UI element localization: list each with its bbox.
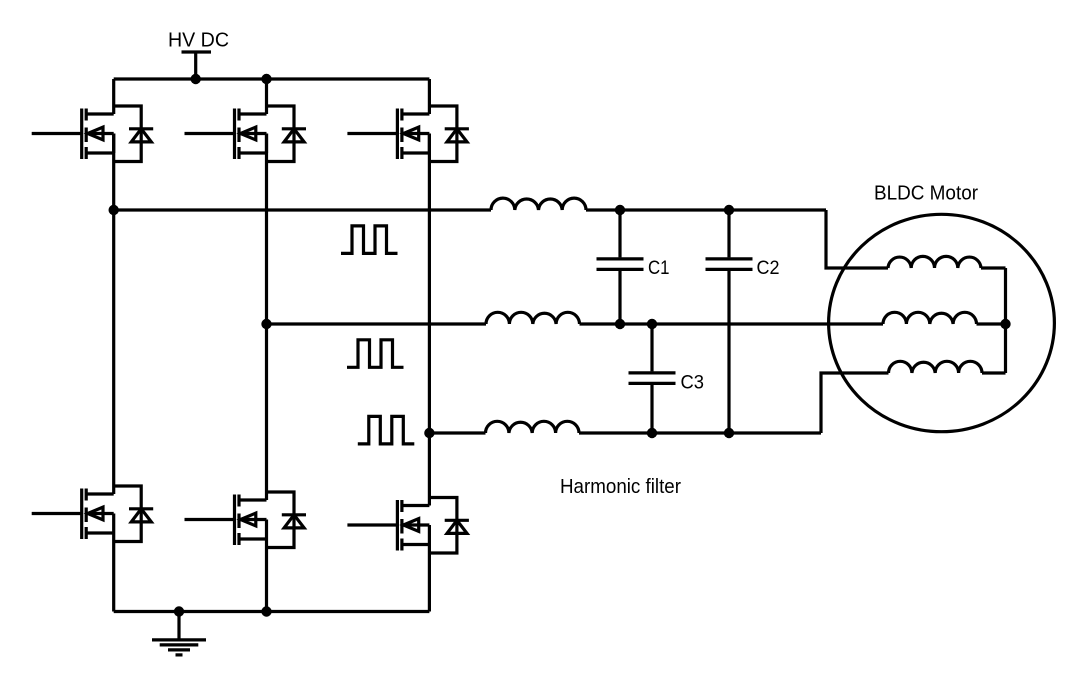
node: phase B tap — [261, 319, 271, 329]
motor winding phase C — [889, 361, 983, 373]
svg-text:BLDC Motor: BLDC Motor — [874, 183, 978, 205]
node: phase C tap — [424, 428, 434, 438]
node: star point — [1000, 319, 1010, 329]
wire: phase C to filter — [429, 431, 485, 434]
capacitor C1 — [597, 210, 644, 324]
wire: phase A to filter — [114, 208, 491, 211]
svg-text:C3: C3 — [681, 371, 705, 393]
node: C2 bottom — [724, 428, 734, 438]
node: ground junction — [174, 606, 184, 616]
transistor Q1 (N-MOSFET) — [32, 106, 154, 162]
wire: leg midpoint Q1->Q4 — [112, 134, 115, 495]
node: bus / leg-2 junction — [261, 74, 271, 84]
motor winding phase B — [883, 312, 977, 324]
PWM waveform symbol phase C — [358, 416, 415, 444]
wire: phase C step into motor — [821, 373, 889, 433]
wire: leg drain lead Q1 — [112, 79, 115, 114]
ground — [152, 612, 206, 655]
transistor Q5 (N-MOSFET) — [185, 492, 307, 548]
HV DC supply bar — [182, 50, 212, 53]
node: C1 bottom — [615, 319, 625, 329]
node: C2 top — [724, 205, 734, 215]
wire: leg source lead Q4 — [112, 533, 115, 612]
node: bottom bus / leg-2 junction — [261, 606, 271, 616]
node: C3 top — [647, 319, 657, 329]
wire: leg midpoint Q3->Q6 — [428, 134, 431, 506]
svg-text:C2: C2 — [757, 257, 780, 279]
transistor Q3 (N-MOSFET) — [347, 106, 469, 162]
node: C1 top — [615, 205, 625, 215]
wire: leg source lead Q5 — [265, 539, 268, 612]
node: HV DC bus junction — [191, 74, 201, 84]
wire: HV DC stub — [194, 52, 197, 79]
wire: winding C to star — [982, 371, 1006, 374]
wire: leg midpoint Q2->Q5 — [265, 134, 268, 501]
motor winding phase A — [888, 256, 981, 268]
wire: top DC bus — [114, 77, 430, 80]
wire: bottom bus — [114, 610, 430, 613]
PWM waveform symbol phase A — [341, 226, 398, 254]
wire: phase B after filter — [580, 322, 884, 325]
transistor Q2 (N-MOSFET) — [185, 106, 307, 162]
node: phase A tap — [109, 205, 119, 215]
wire: phase A step into motor — [826, 210, 888, 268]
transistor Q4 (N-MOSFET) — [32, 486, 154, 542]
BLDC motor body (circle) — [829, 214, 1055, 431]
wire: phase A after filter — [586, 208, 826, 211]
wire: winding B to star — [977, 322, 1006, 325]
svg-text:C1: C1 — [648, 257, 670, 279]
svg-text:Harmonic filter: Harmonic filter — [560, 476, 681, 498]
svg-text:HV DC: HV DC — [168, 30, 229, 52]
PWM waveform symbol phase B — [347, 340, 404, 368]
wire: leg source lead Q6 — [428, 545, 431, 612]
inductor: filter L2 — [486, 312, 580, 324]
wire: phase C after filter — [579, 431, 821, 434]
wire: phase B to filter — [267, 322, 487, 325]
wire: leg drain lead Q3 — [428, 79, 431, 114]
inductor: filter L1 — [491, 198, 586, 210]
wire: leg drain lead Q2 — [265, 79, 268, 114]
wire: star point vertical — [1004, 268, 1007, 373]
node: C3 bottom — [647, 428, 657, 438]
transistor Q6 (N-MOSFET) — [347, 498, 469, 554]
wire: winding A to star — [981, 266, 1006, 269]
inductor: filter L3 — [486, 421, 580, 433]
capacitor C3 — [629, 324, 676, 433]
capacitor C2 — [706, 210, 753, 433]
